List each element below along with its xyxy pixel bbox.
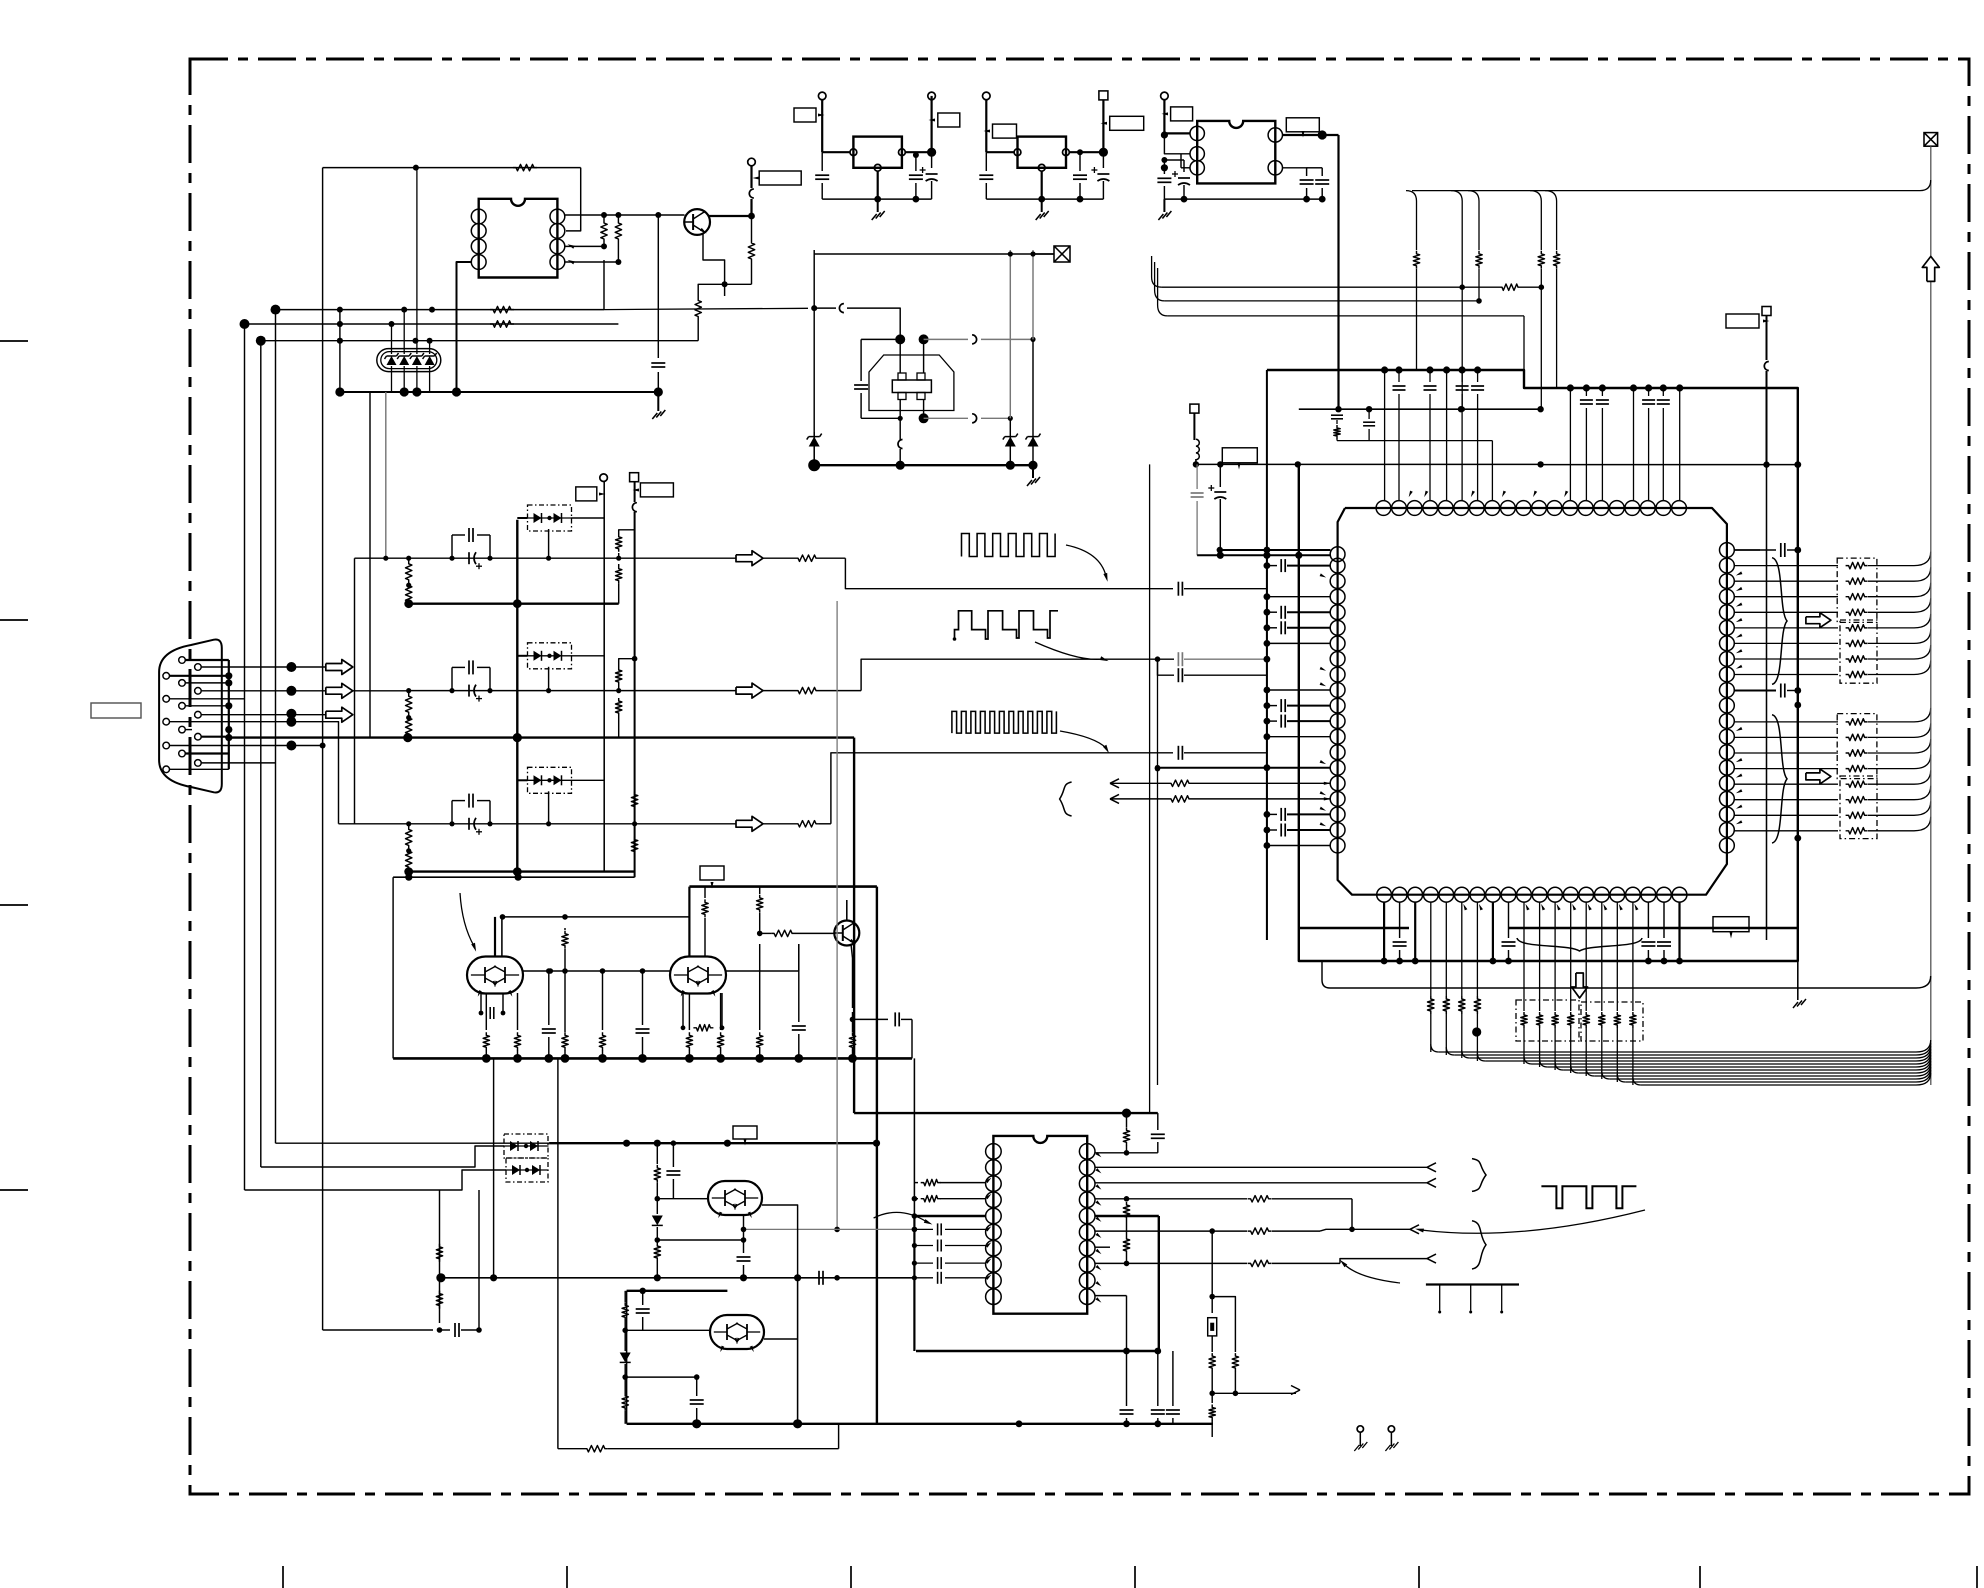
wire q6 base: [625, 1329, 711, 1331]
wire ch3 box center: [546, 791, 551, 826]
wire conn descend3: [275, 310, 277, 1144]
wire drop 1462: [1451, 191, 1465, 412]
vert 1212 net: [1209, 1231, 1215, 1313]
wire mid bus feed: [393, 874, 634, 881]
diode low2: [620, 1330, 631, 1380]
capacitor low4: [690, 1377, 704, 1424]
wire net3 long: [698, 340, 751, 342]
pin wire 5: [201, 690, 291, 692]
wire qright net2 1: [1734, 723, 1931, 740]
wire xtal pin3: [898, 400, 903, 438]
label box right top: [1726, 314, 1770, 328]
bus wire bottom 6: [1555, 1058, 1931, 1070]
wire bus to U1 pin5: [457, 262, 472, 392]
wire drop 1479: [1468, 191, 1482, 304]
wire ch2 feed: [353, 690, 409, 692]
pin wire 6: [169, 698, 244, 700]
resistor qbot net2: [1552, 902, 1558, 1070]
ground sym reg2: [1036, 199, 1049, 220]
opto pack low1: [504, 1134, 549, 1158]
capacitor low main series: [819, 1271, 840, 1285]
wire q5 down: [762, 1198, 775, 1229]
capacitor C9: [1307, 168, 1330, 199]
bottom margin tick 5: [1418, 1566, 1420, 1588]
vert net 369: [368, 395, 370, 667]
pin wire 3: [169, 672, 232, 679]
arrow ch1 out: [736, 551, 763, 566]
wire pkg2 out: [725, 944, 799, 971]
wire drop 1541: [1530, 191, 1545, 412]
capacitor qbot18: [1657, 902, 1671, 964]
resistor dip2: [1123, 1202, 1129, 1266]
stub res ch1: [616, 530, 635, 561]
wire reg3 in2: [1164, 133, 1190, 167]
pointer arrow wf2: [1035, 642, 1109, 661]
wire ch1 box left: [517, 517, 527, 519]
capacitor mid cap2: [636, 968, 650, 1058]
wire xbox feed: [814, 251, 1054, 256]
bus ch3 bottom: [404, 867, 634, 876]
wire low node3: [625, 1374, 699, 1380]
resistor qbot net6: [1614, 902, 1620, 1082]
wire q4 collector: [847, 900, 854, 921]
resistor qbot loose1: [1443, 902, 1454, 1063]
bus wire bottom 9: [1602, 1067, 1931, 1079]
QFP left pins: [1330, 558, 1345, 853]
wire qright net1 2: [1734, 583, 1931, 600]
wire U1 pin4: [565, 259, 621, 265]
capacitor q409a: [1331, 409, 1343, 440]
resistor qbot loose0: [1428, 902, 1439, 1060]
wire qright net1 5: [1734, 629, 1931, 646]
resistor mid3: [757, 887, 763, 934]
capacitor qtop0: [1393, 370, 1406, 500]
pointer arrow pkg1: [460, 893, 476, 952]
capacitor C2: [815, 152, 829, 199]
wire qleft pin8: [1264, 687, 1331, 694]
arrow qright net1: [1806, 613, 1831, 628]
resistor R4: [748, 240, 754, 284]
transistor Q1: [684, 209, 710, 235]
capacitor qtop7: [1657, 388, 1670, 500]
wire conn descend1: [244, 324, 246, 1190]
QFP U3 body: [1338, 508, 1727, 895]
QFP right pins: [1720, 543, 1735, 853]
arrow ch2 out: [736, 683, 763, 698]
thick stub qbot2: [1412, 902, 1419, 964]
wire low node2: [657, 1239, 743, 1241]
wire to xbox: [741, 250, 1054, 254]
wire node down: [751, 216, 753, 240]
conn junction dots: [286, 662, 296, 751]
wire left net 3: [261, 338, 698, 344]
capacitor qtop1: [1424, 370, 1437, 500]
terminal reg1 in: [818, 92, 826, 152]
wire qright net2 2: [1734, 739, 1931, 756]
pin wire 10 stub: [185, 726, 232, 733]
capacitor wf3 series: [1173, 746, 1267, 760]
resistor qtop h1: [1499, 284, 1521, 290]
thick stub qbot19: [1676, 902, 1683, 964]
wire dip pin5 thick: [1095, 1216, 1159, 1351]
capacitor q464a: [1191, 464, 1204, 555]
waveform clock: [962, 534, 1056, 557]
label box opto B: [633, 483, 674, 497]
capacitor C5: [979, 152, 993, 199]
stub res ch3b: [631, 837, 637, 855]
bus wire bottom 10: [1617, 1070, 1930, 1082]
ground sym reg1: [872, 199, 885, 220]
capacitor low pair2b: [636, 1291, 650, 1331]
capacitor q409b: [1363, 409, 1375, 440]
QFP pin arrows bottom: [1463, 904, 1638, 911]
resistor x2 a: [1209, 1353, 1215, 1403]
label box connector: [91, 703, 141, 718]
wire q5 in: [700, 1198, 708, 1200]
gray wire low: [834, 601, 840, 1232]
waveform data: [952, 711, 1057, 733]
wire qtop h2: [1155, 262, 1479, 301]
arrow ch3 out: [736, 816, 763, 831]
resistor ch3a: [406, 821, 412, 853]
opto bus vertical A: [516, 520, 518, 872]
resistor R7: [490, 321, 514, 327]
wire ch3 jog: [831, 753, 1173, 824]
wire dip pin1: [1095, 1152, 1158, 1154]
capacitor wf1 series: [1173, 582, 1267, 596]
wire reg2 in: [986, 151, 1014, 153]
bus q555: [1197, 552, 1330, 559]
bus wire bottom 4: [1524, 1052, 1931, 1064]
capacitor qleft4: [1264, 621, 1331, 634]
resistor ch1b: [406, 583, 412, 605]
capacitor qleft9: [1264, 699, 1331, 712]
diode low1: [652, 1199, 663, 1240]
bottom margin tick 4: [1134, 1566, 1136, 1588]
capacitor ch3c: [449, 794, 492, 827]
vert low 493: [493, 1058, 495, 1277]
resistor mid5: [599, 968, 605, 1058]
wire dip left pin5: [914, 1215, 985, 1217]
gnd bus reg1: [822, 196, 931, 203]
wire U1 pin1 to Q1 base: [565, 212, 685, 218]
vert net 385 gray: [383, 392, 388, 561]
U1 right pins: [550, 209, 565, 269]
wire ch2 box center: [546, 667, 551, 693]
thick bus low bottom: [627, 1419, 1213, 1428]
zener D4: [1026, 339, 1041, 465]
capacitor C10: [1157, 160, 1171, 199]
bus ch2 bottom: [409, 737, 518, 739]
zener D3: [1003, 418, 1018, 465]
wire reg1 out node: [905, 154, 931, 156]
connector CN1 shell: [159, 640, 222, 793]
capacitor q464b polarized: [1208, 464, 1226, 555]
power bus top-left: [335, 387, 663, 396]
pin wire 14: [201, 762, 276, 764]
terminal reg3 in: [1161, 92, 1169, 133]
transistor Q4: [834, 921, 859, 946]
resistor low pair2a: [622, 1291, 628, 1333]
stub res ch2: [616, 659, 635, 694]
bus qfp top: [1381, 366, 1683, 391]
wire to U1 pin2: [566, 168, 581, 231]
resistor pkg2 e2: [717, 993, 723, 1058]
resistor dip left1: [914, 1179, 985, 1185]
terminal dot net2: [240, 319, 250, 329]
resistor R2: [601, 215, 607, 246]
wire vertical left box: [323, 168, 433, 1330]
brace br2: [1472, 1221, 1486, 1269]
resistor qbot loose3: [1474, 902, 1485, 1069]
jumper xtal bottom: [898, 437, 903, 465]
wire net2 riser: [617, 262, 619, 324]
capacitor qtop5: [1596, 388, 1609, 500]
capacitor C8: [1300, 180, 1314, 199]
capacitor low3: [737, 1216, 751, 1278]
wire low main: [436, 1273, 914, 1282]
zener D2: [807, 432, 822, 465]
U1 left pins: [471, 209, 486, 269]
wire Q1 emitter: [703, 234, 725, 284]
VR3 left pins: [1190, 126, 1204, 175]
bus ch1 bottom: [404, 599, 618, 608]
capacitor wf2b series: [1178, 668, 1267, 682]
left margin tick 3: [0, 904, 28, 906]
vert 797 low: [797, 1278, 799, 1424]
inductor L1: [1190, 404, 1199, 467]
gnd bus reg2: [986, 196, 1103, 203]
bus wire bottom 8: [1586, 1064, 1931, 1076]
terminal right top sq: [1762, 307, 1771, 465]
connector pins: [163, 657, 201, 773]
resistor ch1a: [406, 556, 412, 588]
U2 pin arrows left: [986, 1178, 992, 1280]
xbox right: [1924, 133, 1938, 1085]
capacitor qright top: [1734, 465, 1760, 550]
wire ch3 main: [409, 823, 736, 825]
ground sym xtal: [1027, 465, 1040, 486]
capacitor qbot8: [1502, 902, 1516, 964]
connector bus vertical: [228, 660, 230, 769]
capacitor C12: [854, 339, 868, 418]
vert low 441: [439, 1190, 441, 1323]
wire xtal cap top: [861, 338, 900, 340]
wire qleft pin5: [1264, 640, 1331, 647]
opto diode pack ch2: [527, 643, 572, 669]
xtal pin dots: [895, 334, 928, 423]
QFP bottom pins: [1377, 887, 1687, 902]
wire qleft pin2: [1264, 593, 1331, 600]
crystal X1: [892, 373, 931, 400]
qfp top plain stubs: [1385, 370, 1680, 500]
wire low node1: [657, 1198, 700, 1200]
vert q4 rail: [853, 738, 855, 1059]
wire qright net2 3: [1734, 755, 1931, 772]
label box L1: [1222, 448, 1257, 470]
wire qright net2 4: [1734, 770, 1931, 787]
label box qbot: [1713, 917, 1749, 939]
wire qright net1 0: [1734, 552, 1931, 569]
capacitor qtop6: [1642, 388, 1655, 500]
capacitor qleft10: [1264, 715, 1331, 728]
wire qright net2 6: [1734, 801, 1931, 818]
wire drop 1416: [1406, 191, 1420, 370]
aux wire 2: [1110, 794, 1331, 803]
left margin tick 1: [0, 340, 28, 342]
bus wire bottom 0: [1431, 1014, 1931, 1052]
capacitor ch1d polarized: [469, 552, 482, 569]
capacitor C11 polarized: [1161, 157, 1190, 199]
pointer arrow wf1: [1066, 545, 1108, 582]
QFP top pins: [1376, 501, 1686, 516]
pin wire 4: [185, 679, 232, 686]
resistor ch2b: [406, 715, 412, 739]
signal arrow 1: [291, 660, 352, 675]
resistor q4 emitter: [849, 1012, 855, 1058]
terminal dot net3: [256, 336, 266, 346]
thick bus mid: [689, 885, 877, 888]
thick stub qbot0: [1381, 902, 1388, 964]
bus wire bottom 3: [1477, 1014, 1930, 1061]
resistor qbot net7: [1630, 902, 1636, 1085]
wire ch2 box right: [572, 655, 605, 657]
wire dip pin4: [1095, 1196, 1355, 1233]
resistor qbot net1: [1536, 902, 1542, 1067]
caps dip left: [912, 1223, 986, 1283]
resistor pkg2 e1: [686, 993, 692, 1058]
ground sym 1: [652, 392, 665, 419]
vert 854 ext: [853, 1058, 855, 1113]
wire low feed3: [276, 1142, 550, 1144]
wire low res bottom: [558, 1424, 839, 1452]
label box mid bus: [700, 866, 724, 889]
wire qleft arrow1: [1184, 580, 1330, 582]
terminal reg2 in: [983, 92, 991, 152]
wire reg3 rail down: [1337, 135, 1339, 409]
resistor ch3 series: [763, 821, 831, 827]
aux wire 1: [1110, 779, 1331, 788]
wire x2 out: [1212, 1386, 1300, 1395]
pin wire 9: [169, 721, 291, 723]
bottom margin tick 2: [566, 1566, 568, 1588]
wire reg1 out: [905, 148, 936, 157]
wire R5 to bus3: [697, 320, 699, 341]
bus wire bottom 11: [1633, 1073, 1931, 1085]
brace br1: [1472, 1159, 1486, 1192]
label box reg3 out: [1286, 118, 1319, 138]
wire conn spare1: [291, 722, 338, 824]
wire low 626 path: [626, 1291, 628, 1424]
wire q6 out right: [764, 1339, 798, 1424]
label box reg3 in: [1162, 107, 1193, 121]
thick bus dip top: [854, 1109, 1158, 1118]
opto diode pack ch1: [527, 505, 572, 531]
capacitor qright mid: [1734, 684, 1801, 698]
wire q4 emitter: [850, 944, 856, 1022]
opto pack low2: [506, 1158, 549, 1182]
pin wire 2: [201, 666, 291, 668]
pin wire 15: [169, 768, 229, 770]
wire qleft pin18: [1264, 842, 1331, 849]
bottom margin tick 1: [282, 1566, 284, 1588]
vert mid left: [392, 877, 394, 1058]
vert pkg2 base: [688, 887, 690, 956]
bus qfp 409: [1299, 406, 1544, 412]
node on top wire: [413, 165, 419, 171]
opto bus vertical C: [632, 482, 638, 878]
pin wire 8: [201, 714, 291, 716]
wire ch2 box left: [517, 655, 527, 657]
resistor mid6: [757, 944, 763, 1058]
wire ch2 main: [409, 690, 736, 692]
capacitor qtop3: [1471, 370, 1484, 500]
wire reg1 gnd pin: [877, 171, 879, 199]
wire ch1 box center: [546, 529, 551, 561]
resistor x2 c: [1209, 1405, 1215, 1438]
vert pkg1 base: [495, 917, 502, 956]
wire qleft pin0: [1217, 547, 1331, 554]
bottom margin tick 6: [1699, 1566, 1701, 1588]
thick stub qbot7: [1490, 902, 1497, 964]
resistor mid1: [562, 928, 568, 971]
capacitor C4 polarized: [920, 152, 938, 199]
label box reg2 in: [984, 124, 1017, 138]
resistor low 441a: [436, 1244, 442, 1262]
test point 2: [1385, 1426, 1398, 1451]
wire net1 riser: [603, 246, 605, 309]
wire qright v1766: [1766, 465, 1768, 940]
wire link to node: [748, 199, 755, 219]
waveform composite: [953, 611, 1058, 641]
wire xtal pin1: [899, 339, 901, 373]
capacitor qright 550: [1734, 543, 1801, 557]
resistor ch1 series: [763, 555, 845, 561]
wire riser ch1: [371, 666, 373, 668]
gray wire low h: [741, 1227, 915, 1233]
wire xtal pin2: [923, 339, 925, 373]
capacitor qleft17: [1264, 824, 1331, 837]
outer box A: [1266, 370, 1268, 940]
bus wire bottom 2: [1462, 1014, 1931, 1058]
dual transistor Q6: [710, 1315, 764, 1352]
ground qfp right: [1793, 961, 1806, 1008]
wire qright net1 7: [1734, 661, 1931, 678]
wire dip pin3 long: [1095, 1178, 1436, 1187]
caps dip bottom: [1120, 1351, 1180, 1424]
wire q440: [1337, 441, 1492, 500]
capacitor ch2c: [449, 660, 492, 693]
wire left net 1: [276, 307, 809, 313]
brace aux pair: [1060, 782, 1072, 816]
capacitor mid cap3: [792, 944, 806, 1058]
dual transistor Q5: [708, 1181, 762, 1218]
brace qfp bottom: [1517, 938, 1642, 951]
resistor ch2 series: [763, 687, 861, 693]
wire q4 base: [757, 930, 834, 936]
capacitor qleft0: [1264, 559, 1331, 572]
resonator X2: [1208, 1318, 1217, 1336]
gnd bus xtal: [808, 459, 1037, 471]
vert 1149 rail: [1149, 464, 1151, 1113]
wire conn descend2: [261, 310, 276, 1167]
U2 pin arrows right: [1096, 1152, 1102, 1303]
regulator IC VR3: [1197, 121, 1275, 183]
resistor qbot net0: [1521, 902, 1527, 1064]
IC U2 body: [993, 1136, 1087, 1314]
wire qright net1 3: [1734, 598, 1931, 615]
wire qright net2 5: [1734, 786, 1931, 803]
